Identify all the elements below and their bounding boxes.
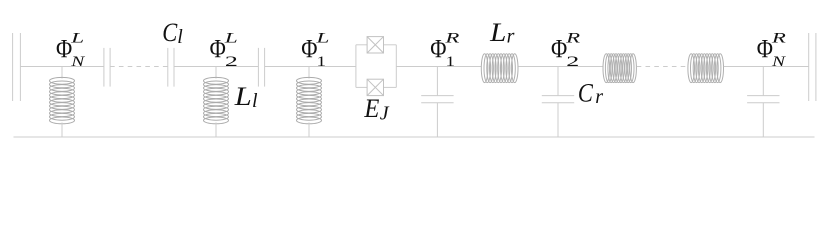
svg-text:Φ: Φ xyxy=(56,35,72,64)
node label Phi_1^R xyxy=(430,30,459,70)
wire: rail L_r to coil2 through node Phi_2^R xyxy=(518,66,602,68)
SQUID loop right riser xyxy=(395,45,397,88)
wire: rail cap3 to SQUID xyxy=(265,66,356,68)
ground rail xyxy=(14,136,815,138)
node label Phi_N^L xyxy=(56,30,86,70)
wire: lead from L_l under Phi_2^L to ground rail xyxy=(215,123,217,138)
wire: lead from rail to under Phi_1^L xyxy=(308,67,310,79)
svg-text:1: 1 xyxy=(317,54,327,70)
value label C_l xyxy=(162,18,183,48)
svg-text:Φ: Φ xyxy=(551,35,567,64)
capacitor C_r under Phi_2^R (to ground, horizontal plates) xyxy=(542,96,574,103)
svg-text:2: 2 xyxy=(225,54,238,70)
wire: rail coil3 to right boundary through node Phi_N^R xyxy=(724,66,809,68)
inductor under Phi_1^L (vertical coil to ground) xyxy=(297,77,322,123)
value label C_r xyxy=(578,79,603,109)
Josephson junction (bottom, boxed X) xyxy=(367,79,383,95)
svg-text:R: R xyxy=(444,30,460,46)
wire: dashed continuation between right coils xyxy=(637,66,688,68)
value label L_r xyxy=(489,18,515,47)
wire: rail cap2 to cap3 through node Phi_2^L xyxy=(174,66,258,68)
wire: capacitor C_r under Phi_2^R to ground rail xyxy=(557,103,559,137)
capacitor under Phi_1^R (to ground, horizontal plates) xyxy=(421,96,453,103)
svg-text:l: l xyxy=(177,26,183,48)
svg-text:L: L xyxy=(223,30,238,46)
svg-text:Φ: Φ xyxy=(430,35,446,64)
node label Phi_1^L xyxy=(301,30,329,70)
wire: node drop to capacitor under Phi_N^R xyxy=(762,67,764,96)
left boundary capacitor plates (array continues) xyxy=(13,33,21,101)
capacitor C_l (3) (series, vertical plates) xyxy=(258,48,264,87)
svg-text:N: N xyxy=(70,54,86,70)
svg-text:Φ: Φ xyxy=(757,35,773,64)
wire: lead from rail to under Phi_N^L xyxy=(61,67,63,79)
value label E_J xyxy=(363,94,389,124)
capacitor C_l (1) (series, vertical plates) xyxy=(104,48,110,87)
svg-text:C: C xyxy=(578,79,594,108)
wire: lead from under Phi_N^L to ground rail xyxy=(61,123,63,138)
wire: SQUID top branch xyxy=(356,44,396,46)
svg-text:r: r xyxy=(595,86,603,108)
capacitor C_l (2) (series, vertical plates) xyxy=(168,48,174,87)
svg-text:L: L xyxy=(315,30,330,46)
svg-text:N: N xyxy=(771,54,787,70)
inductor L_r (horizontal coil) xyxy=(481,54,518,83)
inductor L_r (2) (horizontal coil) xyxy=(603,54,636,83)
node label Phi_N^R xyxy=(757,30,787,70)
svg-text:l: l xyxy=(252,90,258,112)
wire: SQUID bottom branch xyxy=(356,86,396,88)
svg-text:Φ: Φ xyxy=(301,35,317,64)
wire: rail left boundary to C_l cap1 xyxy=(20,66,104,68)
wire: dashed continuation between C_l capacitors xyxy=(110,66,168,68)
svg-text:L: L xyxy=(489,18,506,47)
svg-text:L: L xyxy=(234,82,252,111)
svg-text:J: J xyxy=(380,103,390,125)
inductor L_l under Phi_2^L (vertical coil to ground) xyxy=(204,77,229,123)
svg-text:L: L xyxy=(70,30,85,46)
wire: capacitor under Phi_N^R to ground rail xyxy=(762,103,764,137)
node label Phi_2^L xyxy=(210,30,238,70)
svg-text:Φ: Φ xyxy=(210,35,226,64)
inductor under Phi_N^L (vertical coil to ground) xyxy=(50,77,75,123)
svg-text:1: 1 xyxy=(446,54,456,70)
wire: capacitor under Phi_1^R to ground rail xyxy=(436,103,438,137)
wire: lead from rail to L_l under Phi_2^L xyxy=(215,67,217,79)
SQUID loop left riser xyxy=(355,45,357,88)
Josephson junction (top, boxed X) xyxy=(367,37,383,53)
right boundary capacitor plates (array continues) xyxy=(809,33,816,101)
value label L_l xyxy=(234,82,258,112)
svg-text:2: 2 xyxy=(566,54,579,70)
svg-text:r: r xyxy=(507,25,515,47)
wire: rail SQUID to L_r through node Phi_1^R xyxy=(396,66,481,68)
svg-text:R: R xyxy=(565,30,581,46)
wire: node drop to capacitor under Phi_1^R xyxy=(436,67,438,96)
wire: lead from under Phi_1^L to ground rail xyxy=(308,123,310,138)
wire: node drop to capacitor C_r under Phi_2^R xyxy=(557,67,559,96)
node label Phi_2^R xyxy=(551,30,580,70)
capacitor under Phi_N^R (to ground, horizontal plates) xyxy=(747,96,779,103)
svg-text:C: C xyxy=(162,18,178,47)
svg-text:E: E xyxy=(363,94,379,123)
svg-text:R: R xyxy=(770,30,786,46)
inductor L_r (3) (horizontal coil) xyxy=(688,54,724,83)
